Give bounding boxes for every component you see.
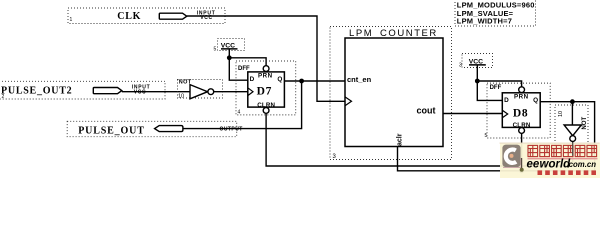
svg-text:D: D [504, 97, 509, 104]
svg-text:PULSE_OUT: PULSE_OUT [78, 125, 145, 136]
svg-text:10: 10 [558, 111, 564, 117]
inverter NOT (instance 10) [178, 80, 223, 100]
input pin PULSE_OUT2 [0, 81, 165, 100]
svg-text:LPM_COUNTER: LPM_COUNTER [349, 28, 438, 39]
svg-text:D8: D8 [513, 107, 528, 119]
parameter box LPM_MODULUS/LPM_SVALUE/LPM_WIDTH [455, 0, 536, 26]
junction D7 Q [299, 79, 304, 84]
watermark eeworld [500, 143, 600, 178]
svg-text:DFF: DFF [238, 66, 250, 72]
wire aclr to clear net B [398, 147, 595, 171]
svg-text:OUTPUT: OUTPUT [220, 127, 243, 133]
wire D8 Q output [540, 102, 594, 171]
svg-text:D: D [250, 76, 255, 83]
wire D7 CLRN down to clear net [266, 113, 573, 166]
power VCC symbol for D8 [459, 54, 493, 69]
wire NOT output to D7 clock [214, 91, 248, 93]
junction VCC/D8 [475, 79, 480, 84]
svg-text:VCC: VCC [134, 89, 147, 95]
svg-text:CLK: CLK [117, 11, 141, 22]
wire Q down to PULSE_OUT [183, 81, 302, 129]
wire D8 CLRN visible through watermark [521, 158, 523, 170]
wire PULSE_OUT2 to NOT input [122, 91, 190, 93]
svg-text:NOT: NOT [582, 117, 588, 130]
svg-text:cout: cout [417, 105, 436, 115]
power VCC symbol for D7 [214, 39, 245, 53]
svg-text:Q: Q [277, 76, 282, 83]
output pin PULSE_OUT [67, 121, 243, 136]
wire D7 Q output [284, 80, 345, 82]
counter U3 LPM_COUNTER [330, 27, 452, 161]
svg-text:Q: Q [533, 97, 538, 104]
wire inverter output visible through watermark [572, 143, 574, 156]
svg-text:5: 5 [214, 47, 217, 53]
inverter NOT right (instance 10) [555, 105, 588, 150]
svg-text:PRN: PRN [258, 72, 273, 79]
svg-text:1: 1 [70, 17, 73, 23]
svg-text:D7: D7 [257, 86, 272, 98]
wire Q junction down to inverter [571, 102, 573, 125]
svg-text:10: 10 [178, 94, 184, 100]
svg-text:5: 5 [485, 133, 488, 139]
svg-text:4: 4 [238, 110, 241, 116]
svg-text:PRN: PRN [514, 93, 529, 100]
junction D8 Q [570, 99, 575, 104]
svg-text:DFF: DFF [490, 85, 502, 91]
svg-text:PULSE_OUT2: PULSE_OUT2 [1, 86, 72, 97]
svg-text:cnt_en: cnt_en [347, 75, 372, 84]
wire VCC to D7 D and PRN [229, 49, 248, 80]
wire cout to D8 clock [443, 113, 502, 115]
flip-flop D8 (DFF) [485, 83, 551, 139]
svg-text:ee: ee [527, 158, 540, 170]
junction D8 CLRN / net B [519, 168, 524, 173]
input pin CLK [68, 8, 225, 24]
svg-text:3: 3 [459, 63, 462, 69]
wire D8 CLRN down to clear net B [521, 133, 523, 170]
junction VCC/D7 [227, 55, 232, 60]
svg-text:.com.cn: .com.cn [567, 160, 597, 169]
wire VCC to D8 D and PRN [477, 65, 502, 101]
flip-flop D7 (DFF) [236, 61, 296, 116]
svg-text:aclr: aclr [397, 133, 404, 146]
svg-text:LPM_WIDTH=7: LPM_WIDTH=7 [457, 17, 512, 26]
wire CLK to LPM clock [187, 16, 345, 101]
wire inverter output down to clear net A [572, 142, 574, 167]
